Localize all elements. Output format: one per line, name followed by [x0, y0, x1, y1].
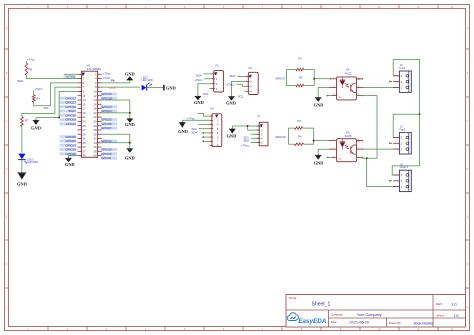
- wire P2 pin2 to ground: [232, 81, 246, 96]
- wire P2 pin3 +7Vcc: [236, 84, 246, 86]
- pin end dots U5: [330, 140, 364, 158]
- svg-text:+7Vcc: +7Vcc: [226, 83, 235, 87]
- connector J2 refdes: [399, 63, 405, 70]
- svg-text:+7Vcc: +7Vcc: [27, 58, 36, 62]
- wire U4 emitter to J2 pin1: [363, 86, 400, 88]
- net label GPIO27 (pin 13): [60, 101, 77, 104]
- connector H1 pins left: [78, 74, 82, 155]
- wire stem to ground: [35, 118, 37, 121]
- wire LED3 to ground: [21, 160, 23, 173]
- svg-text:C: C: [467, 120, 469, 123]
- connector J1 pins: [256, 124, 263, 144]
- ground bar right of LED2: [164, 85, 176, 91]
- ground below pins 14/20: [127, 118, 133, 120]
- svg-text:R6: R6: [36, 96, 40, 100]
- wire pin20 to ground net: [102, 112, 130, 114]
- svg-text:Sheet_1: Sheet_1: [312, 301, 331, 307]
- ground flag up near header: [127, 79, 133, 81]
- svg-text:R3: R3: [297, 119, 301, 123]
- svg-text:+7Vcc: +7Vcc: [187, 116, 196, 120]
- junction dot: [313, 78, 315, 80]
- pin 1 marker H1: [82, 73, 85, 77]
- svg-text:EasyEDA: EasyEDA: [298, 318, 326, 325]
- ground below U4: [315, 97, 321, 99]
- wire ground net vertical: [129, 100, 131, 119]
- svg-text:Company:: Company:: [331, 312, 344, 316]
- svg-text:NC: NC: [339, 159, 343, 161]
- net label GPIO13 (pin 33): [60, 144, 77, 147]
- svg-text:GND: GND: [31, 125, 41, 130]
- ground below P2: [228, 96, 234, 98]
- wire H2 pin3 SCL: [199, 124, 210, 126]
- title block Company: [331, 312, 382, 317]
- svg-text:4N25: 4N25: [345, 71, 352, 75]
- svg-text:P1: P1: [215, 63, 219, 67]
- wire P2 pin1 SDA: [237, 75, 246, 77]
- ground below P1: [195, 95, 201, 97]
- wire P2 pin4 SCL: [244, 90, 246, 92]
- connector J4 pins: [393, 173, 402, 189]
- net label GPIO18 (pin 12): [101, 97, 118, 100]
- net label GPIO12 (pin 32): [101, 140, 118, 143]
- power flag +7Vcc above R6: [34, 87, 43, 95]
- junction dot: [419, 113, 421, 115]
- svg-text:GND: GND: [314, 103, 324, 108]
- wire P1 pin3 to ground: [198, 84, 211, 97]
- connector J2 pin circles: [406, 75, 409, 89]
- no-connect arrow U4 pin3: [327, 95, 331, 97]
- wire R8 to pin3 SDA: [26, 76, 77, 79]
- net label GPIO23 (pin 16): [101, 105, 118, 108]
- svg-text:Pb: Pb: [111, 78, 115, 82]
- svg-text:4N25: 4N25: [345, 134, 352, 138]
- title block Drawn By: [389, 321, 435, 326]
- wire pin6 to ground: [102, 80, 130, 83]
- junction dot: [129, 112, 131, 114]
- svg-text:Rick Master: Rick Master: [414, 322, 435, 326]
- ground below U5: [315, 154, 321, 156]
- junction dot: [247, 125, 249, 127]
- wire R3 R4 parallel loop: [288, 128, 313, 144]
- wire pin39 to ground: [69, 156, 78, 159]
- net label GPIO10 (pin 19): [60, 114, 77, 117]
- wire pin14 to ground net: [102, 99, 130, 101]
- wire H2 pin6 stub: [201, 136, 209, 138]
- svg-text:SDA: SDA: [196, 73, 202, 77]
- svg-text:NC: NC: [357, 79, 361, 81]
- pin 1 marker P2: [249, 75, 252, 78]
- svg-text:GPIO11: GPIO11: [66, 122, 77, 126]
- svg-text:Drawn By:: Drawn By:: [389, 321, 402, 325]
- junction dot: [129, 142, 131, 144]
- svg-text:Your Company: Your Company: [357, 313, 382, 317]
- connector P2 body: [248, 72, 258, 94]
- optocoupler U5 pins: [330, 139, 362, 158]
- title block Date: [331, 320, 369, 325]
- net label GPIO22 (pin 15): [60, 105, 77, 108]
- svg-text:39: 39: [82, 154, 86, 158]
- connector P1 body: [214, 71, 224, 92]
- wire ground net vertical 2: [129, 134, 131, 149]
- svg-text:LED-SMD: LED-SMD: [142, 79, 153, 82]
- wire junction to J4 pin1: [367, 158, 400, 186]
- svg-text:GND: GND: [226, 101, 236, 106]
- svg-text:LED-SMD: LED-SMD: [27, 161, 38, 164]
- connector J4 refdes: [399, 162, 408, 169]
- ground below pins 30/34: [127, 148, 133, 150]
- wire J2 pin3 +24V loop: [393, 60, 419, 115]
- svg-text:R1: R1: [298, 57, 302, 61]
- svg-text:+24Vcc: +24Vcc: [399, 165, 408, 169]
- svg-text:GND: GND: [178, 129, 188, 134]
- wire U5 cathode to ground: [318, 149, 330, 155]
- wire to U5 anode: [314, 140, 331, 142]
- connector J4 body: [399, 170, 411, 191]
- no-connect arrow J4 pin2: [389, 180, 392, 182]
- wire H2 pin1 +7Vcc: [197, 114, 209, 117]
- net label GPIO24 (pin 18): [101, 110, 118, 113]
- connector J2 body: [399, 71, 411, 92]
- wire J1 pin5 +7Vcc: [251, 141, 256, 143]
- pin end dots U4: [330, 78, 364, 96]
- svg-text:+7Vcc: +7Vcc: [194, 78, 203, 82]
- wire to U4 anode: [314, 78, 330, 80]
- svg-text:Date:: Date:: [331, 320, 338, 324]
- wire pin8 TXD0: [102, 86, 140, 88]
- wire P1 pin1 SDA: [204, 73, 212, 75]
- svg-text:D: D: [6, 168, 8, 171]
- svg-text:REV:: REV:: [436, 302, 443, 306]
- svg-text:R8: R8: [29, 68, 33, 72]
- svg-text:Fan2: Fan2: [399, 127, 405, 131]
- optocoupler U5 internals: [340, 139, 357, 154]
- wire P1 pin2 +7Vcc: [204, 78, 211, 80]
- connector H1 body: [82, 71, 98, 157]
- svg-text:GPIO07: GPIO07: [101, 126, 112, 130]
- net label GPIO17 (pin 11): [60, 97, 77, 100]
- svg-text:GND: GND: [166, 86, 176, 91]
- connector J2 pins: [393, 74, 402, 90]
- svg-text:+7Vcc: +7Vcc: [241, 143, 250, 147]
- net label GPIO05 (pin 29): [60, 135, 77, 138]
- svg-text:2021-06-29: 2021-06-29: [350, 321, 369, 325]
- svg-text:H2: H2: [210, 106, 214, 110]
- pin 1 marker J1: [260, 124, 263, 127]
- svg-text:G: G: [467, 306, 469, 309]
- wire R1 R2 parallel loop: [286, 70, 314, 86]
- svg-text:GND: GND: [125, 122, 135, 127]
- net label GPIO26 (pin 37): [60, 152, 77, 155]
- net label GPIO11 (pin 23): [60, 122, 77, 125]
- svg-text:TITLE:: TITLE:: [288, 296, 297, 300]
- net label GPIO06 (pin 31): [60, 140, 77, 143]
- connector J3 pin circles: [406, 136, 409, 150]
- resistor R3: [295, 119, 303, 129]
- op-amp U4 refdes: [345, 68, 352, 76]
- connector J3 body: [399, 133, 411, 154]
- title block REV: [436, 301, 458, 306]
- ground left of header: [33, 119, 39, 121]
- svg-text:GND: GND: [227, 134, 237, 139]
- frame zone ticks left/right: [5, 49, 470, 288]
- svg-text:1/1: 1/1: [454, 314, 459, 318]
- svg-text:GND: GND: [125, 155, 135, 160]
- svg-text:SDA: SDA: [17, 79, 23, 83]
- wire H2 pin2 to ground: [182, 120, 209, 122]
- optocoupler U5 body: [337, 139, 357, 162]
- svg-text:R2: R2: [299, 75, 303, 79]
- svg-text:SDA: SDA: [243, 139, 249, 143]
- no-connect arrow U5 pin3: [327, 157, 331, 159]
- connector J3 pins: [393, 136, 402, 152]
- resistor R7: [21, 117, 29, 127]
- svg-text:GPIO17: GPIO17: [275, 77, 286, 81]
- wire U4 pin6 down: [356, 96, 377, 159]
- ground below LED3: [18, 172, 27, 174]
- net label GPIO20 (pin 38): [101, 152, 118, 155]
- wire P1 pin4 SCL: [209, 88, 211, 90]
- net label GPIO25 (pin 22): [101, 118, 118, 121]
- svg-text:D: D: [467, 168, 469, 171]
- svg-text:NC: NC: [339, 97, 343, 99]
- svg-text:TXD0: TXD0: [109, 86, 117, 90]
- svg-text:+3.7Vcc: +3.7Vcc: [65, 75, 75, 79]
- wire R6 to pin5 SCL: [34, 83, 78, 106]
- wire J1 pin4 SDA: [251, 137, 256, 139]
- svg-text:GPIO16: GPIO16: [275, 135, 286, 139]
- no-connect arrow J3 pin2: [389, 142, 392, 144]
- svg-text:G: G: [6, 306, 8, 309]
- resistor R4: [295, 135, 304, 146]
- net label BD17 (pin 17): [60, 110, 77, 113]
- title block TITLE: [288, 296, 330, 307]
- pin 1 marker P1: [215, 72, 218, 75]
- wire pin7 to R7: [22, 87, 78, 117]
- wire H2 pin5 stub: [201, 132, 209, 134]
- wire J1 pin3 SCL: [251, 133, 256, 135]
- resistor R2: [296, 75, 304, 87]
- net label GPIO09 (pin 21): [60, 118, 77, 121]
- connector H1 pins right: [98, 74, 102, 155]
- svg-text:+7Vcc: +7Vcc: [103, 76, 112, 80]
- ground below header: [65, 157, 71, 159]
- svg-text:GPIO21: GPIO21: [101, 156, 112, 160]
- wire U4 cathode to ground: [318, 87, 330, 97]
- net label GPIO16 (pin 36): [101, 148, 118, 151]
- svg-text:J1: J1: [257, 114, 260, 118]
- svg-text:SDA: SDA: [192, 130, 198, 134]
- wire H2 pin4 SDA: [199, 128, 210, 130]
- svg-text:GND: GND: [125, 72, 135, 77]
- connector H2 pins: [210, 114, 219, 147]
- connector P2 pins: [246, 75, 252, 94]
- wire pin1 3V3: [64, 73, 78, 75]
- net label GPIO21 (pin 40): [101, 157, 118, 160]
- svg-text:P2: P2: [249, 66, 253, 70]
- svg-text:40: 40: [93, 154, 97, 158]
- svg-text:GND: GND: [314, 161, 324, 166]
- connector H1 refdes: [87, 64, 101, 72]
- wire H2 pin7 stub: [201, 140, 209, 142]
- connector J1 body: [259, 122, 268, 146]
- wire U5 emitter to Fan2 pin1: [363, 148, 400, 150]
- net label GPIO15 (pin 10): [101, 92, 118, 95]
- wire stem to ground at J1: [231, 126, 233, 129]
- svg-text:R7: R7: [25, 118, 29, 122]
- connector H1 pin numbers: [82, 72, 97, 157]
- junction dot: [366, 157, 368, 159]
- wire pin9 ground net: [36, 91, 78, 117]
- resistor R6: [32, 95, 40, 102]
- svg-text:R4: R4: [298, 135, 302, 139]
- EasyEDA logo: [287, 313, 326, 325]
- no-connect arrow J2 pin2: [389, 81, 392, 83]
- op-amp U5 refdes: [345, 131, 352, 138]
- pin 1 marker H2: [215, 115, 218, 118]
- svg-text:GND: GND: [65, 162, 75, 167]
- LED LED3 LED-SMD: [18, 154, 38, 164]
- net label GPIO07 (pin 26): [101, 127, 118, 130]
- LED LED2 LED-SMD: [142, 77, 153, 91]
- svg-text:Fan1: Fan1: [399, 66, 405, 70]
- svg-text:FH-30080: FH-30080: [87, 67, 101, 71]
- net label GPIO08 (pin 24): [101, 122, 118, 125]
- svg-text:SCL: SCL: [44, 106, 50, 110]
- wire pin34 to ground net: [102, 142, 130, 144]
- net label +3.7Vcc: [63, 75, 76, 79]
- resistor R1: [296, 57, 304, 71]
- svg-text:C: C: [6, 120, 8, 123]
- svg-text:SCL: SCL: [203, 92, 209, 96]
- svg-text:+7Vcc: +7Vcc: [34, 87, 43, 91]
- optocoupler U4 body: [337, 77, 357, 100]
- ground at J1: [229, 128, 235, 130]
- junction dot: [58, 117, 60, 119]
- net label GPIO19 (pin 35): [60, 148, 77, 151]
- svg-text:SCL: SCL: [238, 95, 244, 99]
- connector J4 pin circles: [406, 174, 409, 188]
- optocoupler U4 pins: [330, 77, 362, 96]
- wire J1 pin1 ground net: [232, 126, 256, 130]
- ground at H2: [179, 122, 185, 124]
- junction dot: [313, 140, 315, 142]
- svg-text:1.0: 1.0: [451, 301, 457, 306]
- title block Sheet: [436, 314, 459, 318]
- svg-text:NC: NC: [357, 141, 361, 143]
- wire pin30 to ground net: [102, 133, 130, 135]
- wire Fan2 pin3 loop: [393, 114, 419, 137]
- resistor R8: [25, 63, 32, 76]
- wire +24V rail to J4 pin3: [392, 114, 419, 175]
- connector P1 pins: [211, 72, 217, 91]
- optocoupler U4 internals: [340, 77, 357, 92]
- wire R7 to LED3: [21, 127, 23, 153]
- wire U5 pin6 join: [356, 156, 377, 159]
- power flag +7Vcc above R8: [26, 58, 35, 63]
- connector J3 refdes: [399, 125, 405, 132]
- svg-text:GND: GND: [194, 100, 204, 105]
- svg-text:Sheet:: Sheet:: [436, 314, 444, 318]
- wire LED2 to ground: [147, 87, 164, 89]
- connector H2 body: [212, 114, 222, 147]
- svg-text:GND: GND: [17, 182, 27, 187]
- title block frame: [286, 295, 466, 328]
- svg-text:SDA: SDA: [230, 74, 236, 78]
